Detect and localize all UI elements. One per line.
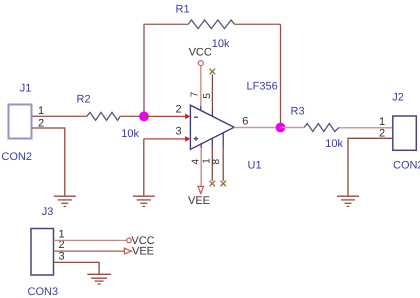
junction node output (magenta dot): [276, 123, 286, 133]
svg-text:2: 2: [176, 104, 182, 116]
ground (J2): [337, 196, 359, 206]
wire J3 pin3 to ground: [54, 262, 100, 274]
svg-text:J3: J3: [42, 206, 54, 218]
no-connect X (pin 8): [220, 181, 226, 187]
pin 1 wire to no-connect: [211, 148, 213, 182]
wire junction to R3: [281, 127, 305, 129]
svg-text:VEE: VEE: [132, 246, 154, 258]
no-connect X (pin 5): [210, 69, 216, 75]
wire feedback top right segment: [235, 23, 281, 25]
VEE power port triangle: [198, 186, 203, 193]
svg-text:1: 1: [38, 105, 44, 117]
junction node input (magenta dot): [139, 112, 149, 122]
svg-text:U1: U1: [248, 160, 262, 172]
svg-text:J1: J1: [20, 82, 32, 94]
svg-text:6: 6: [242, 115, 248, 127]
ground (pin 3): [133, 196, 155, 206]
svg-text:10k: 10k: [121, 128, 139, 140]
resistor R2: [87, 112, 121, 120]
svg-text:4: 4: [191, 159, 202, 165]
svg-text:3: 3: [176, 126, 182, 138]
wire J2 pin2 to ground: [348, 138, 393, 196]
arrowhead at pin 2: [185, 114, 190, 120]
wire feedback vertical left (junction to top): [143, 24, 145, 113]
svg-text:VEE: VEE: [188, 195, 210, 207]
wire op-amp output to junction: [234, 127, 277, 129]
wire J3 pin1 to VCC port: [54, 239, 127, 241]
svg-text:10k: 10k: [325, 138, 343, 150]
svg-text:8: 8: [211, 159, 222, 165]
svg-text:5: 5: [202, 93, 213, 99]
resistor R1: [188, 20, 234, 29]
resistor R3: [304, 124, 339, 132]
wire op-amp pin 3 horizontal: [144, 138, 186, 140]
ground (J3): [87, 274, 111, 284]
svg-text:LF356: LF356: [247, 80, 278, 92]
connector J1: [9, 105, 32, 139]
pin 8 wire to no-connect: [222, 148, 224, 182]
wire feedback top left segment: [143, 23, 188, 25]
connector J3: [31, 229, 54, 276]
svg-text:R3: R3: [291, 106, 305, 118]
pin 5 blue stub: [211, 111, 213, 117]
pin 1 blue stub: [211, 138, 213, 148]
wire junction to op-amp pin 2: [144, 115, 186, 117]
svg-text:J2: J2: [392, 92, 404, 104]
wire J1 pin1 to R2: [32, 115, 87, 117]
svg-text:10k: 10k: [212, 38, 230, 50]
wire R3 to J2 pin1: [339, 127, 393, 129]
connector J2: [393, 116, 417, 150]
svg-text:VCC: VCC: [189, 46, 212, 58]
svg-text:3: 3: [59, 250, 65, 262]
no-connect X (pin 1): [210, 181, 216, 187]
plus symbol: [194, 137, 198, 141]
svg-text:CON2: CON2: [1, 151, 32, 163]
minus symbol: [194, 116, 198, 118]
op-amp U1: [190, 105, 234, 149]
pin 8 blue stub: [222, 132, 224, 147]
svg-text:CON2: CON2: [393, 159, 420, 171]
wire pin 3 down to ground: [143, 139, 145, 196]
svg-text:2: 2: [379, 127, 385, 139]
VEE port triangle (J3): [124, 248, 131, 254]
svg-text:R2: R2: [77, 94, 91, 106]
wire feedback vertical right (top to output junction): [280, 24, 282, 124]
pin 5 wire to no-connect: [211, 74, 213, 110]
ground (J1): [54, 196, 76, 206]
wire J3 pin2 to VEE port: [54, 250, 125, 252]
pin 7 blue stub: [200, 106, 202, 111]
VCC port circle (J3): [127, 238, 132, 243]
svg-text:7: 7: [189, 91, 200, 97]
svg-text:CON3: CON3: [28, 286, 59, 298]
svg-text:R1: R1: [176, 4, 190, 16]
arrowhead at pin 3: [185, 136, 190, 142]
pin 4 blue stub: [200, 143, 202, 148]
pin 4 power wire to VEE: [200, 148, 202, 186]
wire R2 to junction: [120, 115, 144, 117]
pin 7 power wire to VCC: [200, 66, 202, 106]
wire J1 pin2 to ground: [32, 128, 65, 196]
VCC power port circle: [198, 61, 203, 66]
